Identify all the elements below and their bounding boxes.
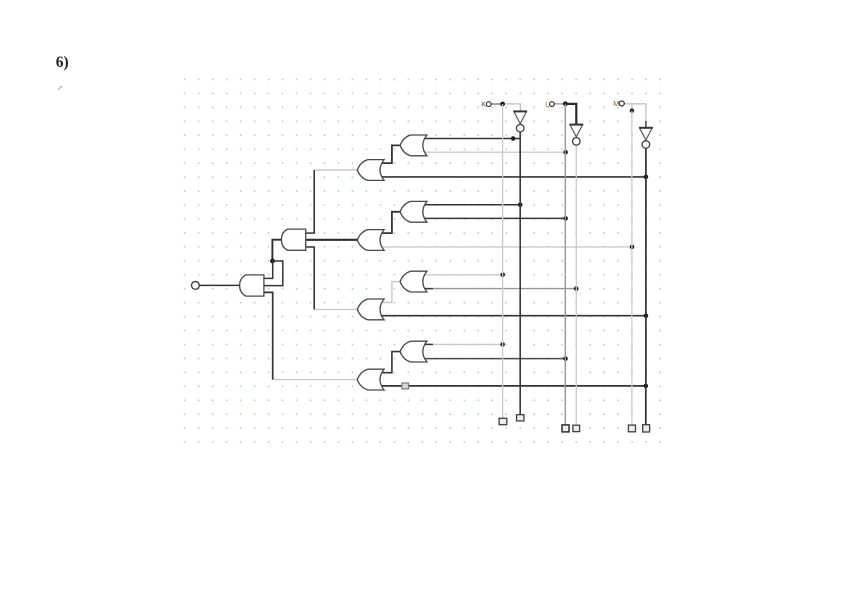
node junction OR3 upper input at K rail xyxy=(500,273,505,278)
and-gate A2 (middle of tree) xyxy=(281,229,305,250)
svg-text:6): 6) xyxy=(56,54,69,71)
inverter N3 (M input) xyxy=(640,128,653,140)
node junction on OR1 upper input wire xyxy=(511,136,516,141)
wire OR2 output to A2 middle input xyxy=(305,239,358,241)
node KQ junction xyxy=(500,102,505,107)
or-gate OR4 (pair4 upper) xyxy=(400,341,427,362)
pin marker on OR4b lower input wire xyxy=(402,383,409,389)
wire M inverter input stub xyxy=(645,121,647,128)
node J1 junction xyxy=(270,259,275,264)
wire M rail stub from MQ wire xyxy=(631,104,633,111)
wire OR4 lower input from L rail xyxy=(425,358,566,360)
pin square S4 (L-not rail bottom) xyxy=(573,425,580,431)
wire MQ pin lead and elbow to M inverter xyxy=(624,104,646,121)
svg-text:M: M xyxy=(613,101,619,108)
wire A1 middle input from node J1 xyxy=(264,261,283,286)
node junction OR4 lower input at L rail xyxy=(563,356,568,361)
wire KQ junction to K inverter input xyxy=(505,104,521,112)
or-gate OR1 (pair1 upper) xyxy=(400,135,427,156)
wire A1 bottom input down to OR4 output wire xyxy=(264,292,273,379)
inverter N2 (L input) xyxy=(570,125,583,137)
wire OR3 output elbow to OR3b top input xyxy=(382,282,400,303)
wire OR3b lower input from M-not rail xyxy=(381,315,646,317)
or-gate OR2b (pair2 lower) xyxy=(357,230,384,251)
pin square S1 (K rail bottom) xyxy=(499,418,507,424)
wire L rail (vertical) xyxy=(564,104,566,425)
pin KQ xyxy=(486,102,491,107)
wire L-not rail (vertical) xyxy=(575,145,577,425)
wire A2 top input stub xyxy=(305,232,315,234)
wire OR2 lower input from L rail xyxy=(425,217,566,219)
wire A1 output to output pin xyxy=(199,284,240,286)
pin square S3 (L rail bottom) xyxy=(562,425,569,432)
node junction OR1 lower input at L rail xyxy=(563,150,568,155)
or-gate OR3b (pair3 lower) xyxy=(357,299,384,320)
wire K rail (vertical) xyxy=(502,104,504,418)
wire M-not rail (vertical) xyxy=(645,149,647,386)
wire OR4 output elbow to OR4b top input xyxy=(382,352,400,373)
wire OR2b lower input from M rail xyxy=(381,246,632,248)
wire OR4b lower input from M-not rail xyxy=(381,385,646,387)
wire A1 top input from node J1 xyxy=(264,261,273,278)
stray tick mark xyxy=(58,86,62,90)
output pin (far left) xyxy=(192,282,200,290)
or-gate OR3 (pair3 upper) xyxy=(400,271,427,292)
inverter N1 (K input) xyxy=(514,111,527,123)
pin square S5 (M rail bottom) xyxy=(628,425,635,432)
wire OR3 lower input from L-not rail xyxy=(425,288,433,290)
wire OR2 upper input from K-not rail xyxy=(425,204,521,206)
or-gate OR4b (pair4 lower) xyxy=(357,369,384,390)
node junction OR2 lower input at L rail xyxy=(563,216,568,221)
wire OR1 upper input from KQ-not rail xyxy=(425,138,521,140)
or-gate OR1b (pair1 lower) xyxy=(357,160,384,181)
wire LQ pin lead xyxy=(554,103,563,105)
wire M rail (vertical) xyxy=(631,111,633,425)
node junction OR3 lower input at L-not rail xyxy=(574,286,579,291)
wire LQ junction to L inverter input xyxy=(568,104,577,125)
wire vertical OR1 output down to A2 top input xyxy=(313,170,315,233)
wire OR4 output to A1 bottom input (horizontal) xyxy=(273,379,358,381)
node junction OR3b lower input at M-not rail xyxy=(644,313,649,318)
and-gate A1 (root, drives output pin) xyxy=(240,275,264,296)
pin MQ xyxy=(619,101,624,106)
node junction OR4b lower input at M-not rail xyxy=(644,384,649,389)
pin square S6 (M-not rail bottom) xyxy=(643,425,650,432)
wire KQ pin lead xyxy=(491,103,500,105)
wire K-not rail (vertical) xyxy=(519,132,521,415)
pin square S2 (K-not rail bottom) xyxy=(517,415,524,421)
wire OR1 output elbow to OR1b top input xyxy=(382,145,400,163)
wire OR1 lower input from L rail xyxy=(425,151,566,153)
pin LQ xyxy=(550,102,555,107)
wire vertical OR3 output up to A2 bottom input xyxy=(313,247,315,309)
node junction OR4 upper input at K rail xyxy=(500,342,505,347)
wire OR3 output to A2 bottom input (horizontal) xyxy=(314,308,358,310)
node junction OR2b lower input at M rail xyxy=(630,245,635,250)
node LQ junction xyxy=(563,101,568,106)
wire OR1b lower input from M-not rail xyxy=(381,176,646,178)
svg-text:L: L xyxy=(545,102,549,109)
or-gate OR2 (pair2 upper) xyxy=(400,201,427,222)
wire OR4 upper input from K rail xyxy=(425,343,433,345)
wire OR3 upper input from K rail xyxy=(425,274,503,276)
wire OR1 output to A2 top input (horizontal) xyxy=(314,169,358,171)
node junction OR2 upper input at K-not rail xyxy=(518,203,523,208)
node M rail junction xyxy=(630,109,634,113)
wire OR2 output elbow to OR2b top input xyxy=(382,212,400,233)
wire A2 bottom input stub xyxy=(305,246,315,248)
node junction OR1b lower input at M-not rail xyxy=(644,175,649,180)
svg-text:K: K xyxy=(481,102,486,109)
wire A2 output elbow down to node J1 xyxy=(272,240,281,261)
